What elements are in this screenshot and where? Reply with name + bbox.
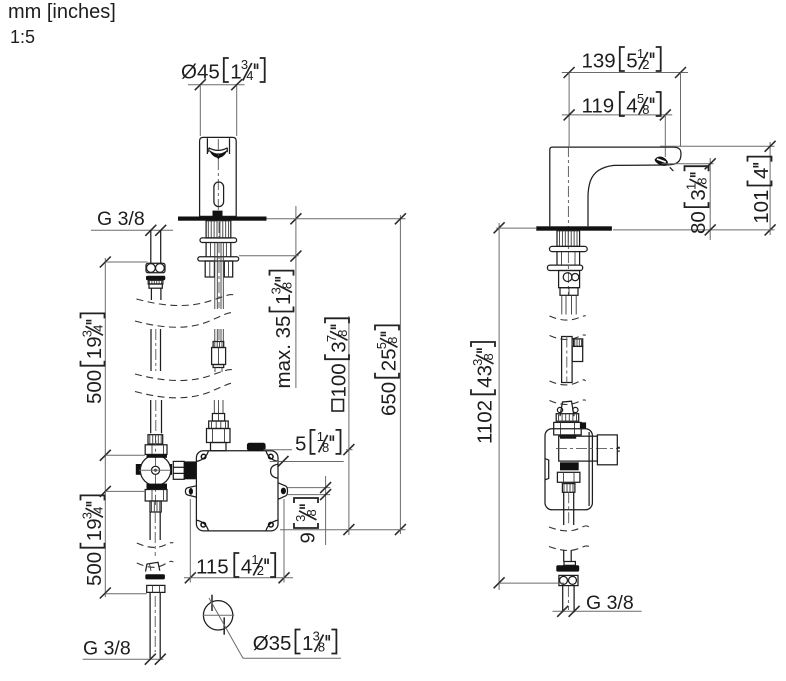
svg-text:2: 2 xyxy=(642,57,649,72)
control box side view xyxy=(545,429,592,510)
dimension label Ø35 [1 3/8"] xyxy=(253,629,337,656)
shank middle side xyxy=(556,252,558,266)
left pipe upper xyxy=(150,230,152,263)
svg-text:4: 4 xyxy=(246,68,253,83)
inline check valve on hose xyxy=(214,329,216,342)
hose coupling into valve side xyxy=(560,401,574,416)
valve body and solenoid side xyxy=(559,436,598,461)
fastening flange front xyxy=(198,257,239,261)
svg-text:4: 4 xyxy=(91,325,106,332)
svg-text:8: 8 xyxy=(318,640,325,655)
svg-text:8: 8 xyxy=(335,330,350,337)
shank side view xyxy=(557,231,580,247)
svg-text:4: 4 xyxy=(750,168,773,179)
hose coupling side xyxy=(559,271,580,288)
dimension label 9 [3/8"] xyxy=(293,498,320,544)
svg-text:1:5: 1:5 xyxy=(10,27,35,47)
break line F xyxy=(137,561,174,567)
svg-text:8: 8 xyxy=(481,353,496,360)
svg-text:19: 19 xyxy=(83,336,106,359)
dimension 5 lines xyxy=(264,449,293,451)
svg-text:19: 19 xyxy=(83,518,106,541)
break line D xyxy=(135,383,234,398)
dimension 650 lines xyxy=(399,215,401,534)
drain hole Ø35 detail xyxy=(203,601,232,630)
svg-text:25: 25 xyxy=(378,348,401,371)
pipe coupling bottom right xyxy=(563,550,565,562)
dimension label 139 [5 1/2"] xyxy=(582,46,661,73)
svg-text:115: 115 xyxy=(196,556,229,579)
dimension box100 lines xyxy=(348,316,350,535)
svg-text:2: 2 xyxy=(257,563,264,578)
dimension max.35 lines xyxy=(295,206,297,388)
svg-text:500: 500 xyxy=(83,552,106,586)
dimension label 115 [4 1/2"] xyxy=(196,552,275,579)
dimension label 1102 [43 3/8"] xyxy=(470,342,497,444)
right mounting ear xyxy=(278,483,288,500)
sensor window xyxy=(214,182,224,207)
svg-text:9: 9 xyxy=(297,532,320,543)
dimension label 100 [3 7/8"] xyxy=(324,318,351,411)
left pipe below coupling xyxy=(150,288,152,300)
control box front view xyxy=(196,451,278,531)
dimension 1102 lines xyxy=(498,223,500,590)
svg-text:8: 8 xyxy=(642,102,649,117)
dimension 9 lines xyxy=(288,487,331,489)
faucet body front view xyxy=(200,137,237,216)
dimension 115 lines xyxy=(184,577,293,579)
dimension label 650 [25 5/8"] xyxy=(374,325,401,416)
break line RE xyxy=(549,526,589,531)
dimension Ø45 lines xyxy=(188,84,245,86)
dimension 139 lines xyxy=(562,72,688,74)
hose upper side xyxy=(561,295,563,314)
svg-text:139: 139 xyxy=(582,50,616,73)
svg-text:1102: 1102 xyxy=(474,400,497,444)
left pipe lower coupling xyxy=(146,562,160,571)
svg-text:80: 80 xyxy=(687,211,710,234)
svg-text:119: 119 xyxy=(582,95,615,118)
fastening flange side xyxy=(547,265,582,270)
svg-text:5: 5 xyxy=(295,432,306,455)
svg-text:500: 500 xyxy=(83,370,106,404)
mounting plate front view xyxy=(178,217,267,221)
valve outlet side xyxy=(560,462,579,470)
svg-text:G 3/8: G 3/8 xyxy=(586,592,634,614)
threaded shank front xyxy=(206,221,231,238)
dimension label 5 [1/8"] xyxy=(295,429,341,456)
break line RA xyxy=(550,316,586,321)
cable gland cap xyxy=(247,443,266,451)
left mounting ear xyxy=(185,486,196,497)
svg-text:8: 8 xyxy=(280,282,295,289)
dimension 119 lines xyxy=(562,114,672,116)
break line RB xyxy=(550,335,586,340)
dimension label 101 [4"] xyxy=(748,157,774,224)
left pipe middle segment xyxy=(150,329,152,371)
svg-text:G 3/8: G 3/8 xyxy=(97,208,145,230)
svg-text:G 3/8: G 3/8 xyxy=(83,638,131,660)
svg-text:Ø35: Ø35 xyxy=(253,632,292,655)
svg-text:8: 8 xyxy=(385,337,400,344)
dimension 80 lines xyxy=(662,163,714,165)
box right edge slot xyxy=(271,464,278,478)
dimension label 500 [19 3/4"] lower xyxy=(80,495,107,586)
svg-text:43: 43 xyxy=(474,365,497,388)
dimension label max.35 [1 3/8"] xyxy=(269,271,296,389)
dimension 500/500 lines xyxy=(104,258,106,597)
dimension label 500 [19 3/4"] upper xyxy=(80,313,107,404)
svg-text:650: 650 xyxy=(378,382,401,416)
break line E xyxy=(137,543,174,548)
svg-text:mm [inches]: mm [inches] xyxy=(8,1,116,23)
break line A xyxy=(136,295,234,306)
break line RF xyxy=(549,546,589,551)
left pipe lower segment xyxy=(150,400,152,433)
shank washer xyxy=(200,238,237,243)
svg-text:max. 35: max. 35 xyxy=(272,316,295,389)
svg-text:101: 101 xyxy=(750,190,773,224)
faucet centerline front xyxy=(217,139,219,216)
left pipe bottom segment xyxy=(149,592,151,658)
shank middle xyxy=(205,243,207,257)
svg-text:8: 8 xyxy=(695,177,710,184)
tee valve front view xyxy=(148,435,163,444)
check valve side view xyxy=(562,337,573,383)
outlet pipe side upper xyxy=(563,492,565,525)
connector block valve-to-box xyxy=(173,461,184,479)
aerator outlet side view xyxy=(655,157,668,166)
left pipe below valve xyxy=(149,512,151,540)
svg-text:8: 8 xyxy=(322,440,329,455)
dimension label Ø45 [1 3/4"] xyxy=(181,57,265,84)
svg-text:4: 4 xyxy=(91,507,106,514)
left pipe coupling xyxy=(146,263,165,273)
dimension label 80 [3 1/8"] xyxy=(684,166,711,234)
faucet centerline side xyxy=(567,146,569,232)
hose fitting into control box xyxy=(213,400,215,414)
shank washer side xyxy=(550,246,588,251)
mounting plate side view xyxy=(536,226,612,230)
spout outlet crescent xyxy=(209,148,228,151)
faucet body side view xyxy=(550,147,681,226)
break line RD xyxy=(550,400,586,405)
mounting legs front xyxy=(205,261,214,277)
control box corner screws xyxy=(201,454,206,459)
break line RC xyxy=(550,380,586,385)
svg-text:Ø45: Ø45 xyxy=(181,61,220,84)
svg-text:8: 8 xyxy=(304,509,319,516)
break line B xyxy=(135,313,234,328)
dimension label 119 [4 5/8"] xyxy=(582,91,661,118)
outlet pipe bottom side xyxy=(562,586,564,613)
sensor block xyxy=(213,211,223,217)
supply hose upper segment xyxy=(214,243,216,310)
svg-text:100: 100 xyxy=(328,363,351,397)
dimension 101 lines xyxy=(660,145,775,147)
break line C xyxy=(135,370,234,381)
